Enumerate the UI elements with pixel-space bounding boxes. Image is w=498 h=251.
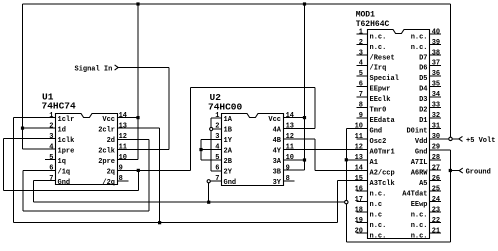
svg-text:8: 8 [119, 175, 123, 183]
arrow Ground [459, 168, 463, 173]
svg-text:8: 8 [286, 175, 290, 183]
svg-text:D5: D5 [419, 75, 427, 83]
svg-text:D4: D4 [419, 86, 427, 94]
svg-text:11: 11 [119, 143, 127, 151]
wire U1 pin 8 /2q stub [117, 180, 128, 182]
wire A3Tclk drop [336, 181, 338, 223]
svg-text:4A: 4A [273, 127, 282, 135]
junction 2q feedback [137, 169, 140, 172]
svg-text:17: 17 [355, 196, 363, 204]
svg-text:/2q: /2q [102, 179, 115, 187]
svg-text:A1: A1 [370, 159, 378, 167]
wire U2 pin 13 4A [283, 128, 315, 130]
svg-text:/Irq: /Irq [370, 65, 387, 73]
svg-text:28: 28 [432, 154, 440, 162]
svg-text:A5: A5 [419, 180, 427, 188]
svg-text:/Reset: /Reset [370, 54, 395, 62]
wire U1 pin 7 Gnd [34, 180, 56, 182]
svg-text:3: 3 [359, 49, 363, 57]
svg-text:A7IL: A7IL [411, 159, 428, 167]
node U2 1B junction ring [210, 127, 213, 130]
svg-text:Gnd: Gnd [58, 179, 71, 187]
MOD1 pin 37 stub [430, 64, 441, 66]
node circuit ground ring [345, 200, 348, 203]
wire 1clk feedback rail [4, 190, 139, 192]
MOD1 pin 21 stub [430, 232, 441, 234]
IC U2 74HC00 body (quad NAND) [222, 114, 284, 186]
MOD1 pin 20 stub [357, 232, 368, 234]
svg-text:2: 2 [49, 122, 53, 130]
svg-text:A6RW: A6RW [411, 170, 429, 178]
wire module ground right column [449, 150, 451, 242]
svg-text:33: 33 [432, 102, 440, 110]
svg-text:A3Tclk: A3Tclk [370, 180, 395, 188]
IC U1 74HC74 body (dual D flip-flop) [56, 114, 118, 185]
wire Signal In vertical drop [168, 68, 170, 150]
svg-text:36: 36 [432, 70, 440, 78]
svg-text:A4Tdat: A4Tdat [402, 191, 427, 199]
svg-text:n.c.: n.c. [370, 44, 387, 52]
wire U2 pin 12 4B [283, 138, 315, 140]
junction clear rail / 2clr [158, 221, 161, 224]
junction U1 Vcc pin 14 [136, 116, 139, 119]
junction 1Y to 2A [199, 148, 202, 151]
svg-text:Vdd: Vdd [415, 138, 428, 146]
svg-text:3: 3 [49, 133, 53, 141]
MOD1 pin 31 stub [430, 127, 441, 129]
wire U1 pin 4 1pre [23, 148, 56, 150]
MOD1 pin 11 stub [357, 138, 368, 140]
wire ground bottom run [346, 241, 450, 243]
IC module MOD1 T62H64C body [368, 30, 430, 239]
svg-text:14: 14 [119, 112, 127, 120]
svg-text:12: 12 [355, 144, 363, 152]
wire U2 pin 10 3A [283, 159, 305, 161]
wire Signal In horizontal [118, 67, 169, 69]
svg-text:11: 11 [286, 143, 294, 151]
svg-text:4: 4 [359, 60, 363, 68]
MOD1 pin 27 stub [430, 169, 441, 171]
svg-text:23: 23 [432, 206, 440, 214]
svg-text:2pre: 2pre [98, 158, 115, 166]
svg-text:n.c.: n.c. [370, 33, 387, 41]
wire MOD1 pin 15 A3Tclk [337, 180, 367, 182]
svg-text:18: 18 [355, 206, 363, 214]
svg-text:D0int: D0int [406, 128, 427, 136]
MOD1 pin 34 stub [430, 96, 441, 98]
MOD1 pin 35 stub [430, 85, 441, 87]
node +5 Volt terminal ring [449, 137, 452, 140]
svg-text:9: 9 [359, 112, 363, 120]
svg-text:Osc2: Osc2 [370, 138, 387, 146]
svg-text:35: 35 [432, 81, 440, 89]
wire MOD1 pin 29 Gnd [430, 149, 451, 151]
wire +5V label lead [452, 138, 459, 140]
MOD1 pin 22 stub [430, 222, 441, 224]
MOD1 pin 25 stub [430, 190, 441, 192]
MOD1 pin 39 stub [430, 43, 441, 45]
svg-text:5: 5 [359, 70, 363, 78]
svg-text:9: 9 [119, 165, 123, 173]
svg-text:16: 16 [355, 186, 363, 194]
svg-text:4: 4 [49, 143, 53, 151]
junction U2 Vcc pin 14 [303, 116, 306, 119]
svg-text:n.c.: n.c. [411, 222, 428, 230]
svg-text:n.c.: n.c. [370, 222, 387, 230]
svg-text:3B: 3B [273, 169, 282, 177]
wire U2 pin 3 1Y [201, 139, 222, 141]
svg-text:9: 9 [286, 165, 290, 173]
svg-text:27: 27 [432, 165, 440, 173]
wire +5V left leg down to U1 1d/1pre [22, 4, 24, 149]
svg-text:Vcc: Vcc [102, 116, 115, 124]
MOD1 pin 28 stub [430, 159, 441, 161]
wire 2q riser to U2 [190, 87, 192, 170]
wire U1 pin 3 1clk [4, 138, 56, 140]
wire 1clr loop vertical [13, 118, 15, 223]
svg-text:Special: Special [370, 75, 399, 83]
svg-text:1q: 1q [58, 158, 66, 166]
wire U2 pin 8 3Y stub [283, 180, 295, 182]
svg-text:38: 38 [432, 49, 440, 57]
svg-text:7: 7 [49, 175, 53, 183]
svg-text:10: 10 [355, 123, 363, 131]
wire U2 pin 1 1A [211, 117, 221, 119]
MOD1 pin 32 stub [430, 117, 441, 119]
wire MOD1 pin 10 Gnd [346, 127, 367, 129]
svg-text:D3: D3 [419, 96, 427, 104]
svg-text:2A: 2A [224, 148, 233, 156]
svg-text:30: 30 [432, 133, 440, 141]
MOD1 pin 23 stub [430, 211, 441, 213]
arrow +5 Volt [459, 136, 463, 141]
wire ground column lower [345, 204, 347, 242]
svg-text:24: 24 [432, 196, 440, 204]
MOD1 pin 40 stub [430, 33, 441, 35]
wire U2 pin 11 4Y to MOD1 pin 12 A0Tmr1 [283, 148, 368, 150]
svg-text:34: 34 [432, 91, 440, 99]
wire 2Y to 1A/1B vertical [210, 118, 212, 171]
svg-text:Tmr0: Tmr0 [370, 107, 387, 115]
wire 2clr vertical [159, 128, 161, 223]
svg-text:10: 10 [119, 154, 127, 162]
svg-text:EEwp: EEwp [411, 201, 428, 209]
MOD1 pin 4 stub [357, 64, 368, 66]
MOD1 pin 18 stub [357, 211, 368, 213]
svg-text:Gnd: Gnd [415, 149, 428, 157]
svg-text:1B: 1B [224, 127, 233, 135]
wire 1Y to 2A/2B vertical [200, 140, 202, 161]
svg-text:4Y: 4Y [273, 148, 282, 156]
svg-text:n.c.: n.c. [370, 232, 387, 240]
wire 4A drop [314, 87, 316, 128]
svg-text:7: 7 [215, 175, 219, 183]
wire MOD1 pin 13 A1 [346, 159, 367, 161]
svg-text:1clr: 1clr [58, 116, 75, 124]
MOD1 pin 26 stub [430, 180, 441, 182]
svg-text:40: 40 [432, 28, 440, 36]
wire U1 Gnd loop vertical [33, 181, 35, 202]
svg-text:EEdata: EEdata [370, 117, 396, 125]
MOD1 pin 6 stub [357, 85, 368, 87]
svg-text:7: 7 [359, 91, 363, 99]
wire U2 pin 4 2A [201, 149, 222, 151]
svg-text:22: 22 [432, 217, 440, 225]
svg-text:4B: 4B [273, 137, 282, 145]
svg-text:EEclk: EEclk [370, 96, 391, 104]
svg-text:3A: 3A [273, 158, 282, 166]
svg-text:n.c.: n.c. [411, 33, 428, 41]
junction top bus right-mid leg [303, 2, 306, 5]
svg-text:1A: 1A [224, 116, 233, 124]
svg-text:2d: 2d [107, 137, 115, 145]
wire 2d vertical [148, 139, 150, 210]
wire /1q to 2d rail [23, 210, 149, 212]
svg-text:A0Tmr1: A0Tmr1 [370, 149, 395, 157]
svg-text:1: 1 [49, 112, 53, 120]
junction +5V bus to U1 1d [21, 127, 24, 130]
wire clear rail bottom [14, 222, 338, 224]
svg-text:+5 Volt: +5 Volt [466, 137, 495, 145]
arrow Signal In [115, 65, 119, 70]
svg-text:13: 13 [286, 122, 294, 130]
svg-text:74HC74: 74HC74 [42, 101, 77, 112]
node U2 Gnd pin 7 ring [207, 180, 210, 183]
svg-text:MOD1: MOD1 [356, 11, 375, 20]
svg-text:EEpwr: EEpwr [370, 86, 391, 94]
MOD1 pin 5 stub [357, 75, 368, 77]
svg-text:20: 20 [355, 227, 363, 235]
MOD1 pin 1 stub [357, 33, 368, 35]
wire +5V far right leg [450, 4, 452, 137]
svg-text:25: 25 [432, 186, 440, 194]
svg-text:13: 13 [119, 122, 127, 130]
svg-text:1clk: 1clk [58, 137, 75, 145]
svg-text:n.c.: n.c. [411, 232, 428, 240]
svg-text:1: 1 [359, 28, 363, 36]
wire U2 Gnd drop [208, 183, 210, 202]
svg-text:29: 29 [432, 144, 440, 152]
svg-text:A2/ccp: A2/ccp [370, 170, 395, 178]
svg-text:n.c: n.c [370, 201, 383, 209]
wire U1 pin 11 2clk [117, 148, 169, 150]
svg-text:Ground: Ground [466, 169, 491, 177]
wire A2/ccp to MOD1 pin 14 [315, 169, 367, 171]
wire 2q top horizontal to U2 4A [191, 86, 316, 88]
svg-text:2Y: 2Y [224, 169, 233, 177]
wire 4B drop to A2/ccp [314, 139, 316, 170]
MOD1 pin 17 stub [357, 201, 368, 203]
svg-text:4: 4 [215, 143, 219, 151]
svg-text:D7: D7 [419, 54, 427, 62]
svg-text:3Y: 3Y [273, 179, 282, 187]
MOD1 pin 33 stub [430, 106, 441, 108]
wire U2 pin 6 2Y [211, 170, 221, 172]
wire U1 pin 6 /1q [23, 170, 56, 172]
junction Ground label tap [449, 169, 452, 172]
svg-text:1d: 1d [58, 127, 66, 135]
MOD1 pin 3 stub [357, 54, 368, 56]
svg-text:39: 39 [432, 39, 440, 47]
svg-text:8: 8 [359, 102, 363, 110]
wire U2 pin 7 Gnd [210, 180, 221, 182]
svg-text:2q: 2q [107, 169, 115, 177]
svg-text:/1q: /1q [58, 169, 71, 177]
wire U2 pin 5 2B [201, 159, 222, 161]
svg-text:10: 10 [286, 154, 294, 162]
svg-text:n.c.: n.c. [370, 191, 387, 199]
svg-text:1Y: 1Y [224, 137, 233, 145]
svg-text:14: 14 [355, 165, 363, 173]
svg-text:2B: 2B [224, 158, 233, 166]
svg-text:n.c.: n.c. [411, 44, 428, 52]
MOD1 pin 8 stub [357, 106, 368, 108]
svg-text:5: 5 [49, 154, 53, 162]
svg-text:1pre: 1pre [58, 148, 75, 156]
wire U1 pin 5 1q stub [45, 159, 56, 161]
svg-text:6: 6 [49, 165, 53, 173]
svg-text:14: 14 [286, 112, 294, 120]
svg-text:26: 26 [432, 175, 440, 183]
wire U1 pin 1 1clr [14, 117, 56, 119]
MOD1 pin 36 stub [430, 75, 441, 77]
svg-text:32: 32 [432, 112, 440, 120]
svg-text:D1: D1 [419, 117, 427, 125]
MOD1 pin 16 stub [357, 190, 368, 192]
svg-text:2clr: 2clr [98, 127, 115, 135]
svg-text:Vcc: Vcc [268, 116, 281, 124]
MOD1 pin 9 stub [357, 117, 368, 119]
wire U1 pin 10 2pre [117, 159, 138, 161]
junction MOD1 A1 to ground column [345, 158, 348, 161]
wire U2 pin 2 1B [213, 128, 222, 130]
MOD1 pin 38 stub [430, 54, 441, 56]
MOD1 pin 19 stub [357, 222, 368, 224]
svg-text:D6: D6 [419, 65, 427, 73]
junction top bus mid leg [136, 2, 139, 5]
svg-text:Signal In: Signal In [75, 66, 113, 74]
wire U1 pin 2 1d [23, 127, 56, 129]
wire +5V right-mid leg down to U2 (x=304.5) [304, 4, 306, 170]
svg-text:74HC00: 74HC00 [208, 102, 243, 113]
MOD1 pin 7 stub [357, 96, 368, 98]
svg-text:2clk: 2clk [98, 148, 115, 156]
wire /1q loop vertical [22, 171, 24, 211]
svg-text:11: 11 [355, 133, 363, 141]
wire 1clk loop vertical [3, 139, 5, 191]
svg-text:37: 37 [432, 60, 440, 68]
svg-text:2: 2 [359, 39, 363, 47]
svg-text:15: 15 [355, 175, 363, 183]
svg-text:Gnd: Gnd [224, 179, 237, 187]
svg-text:Gnd: Gnd [370, 128, 383, 136]
wire U1 pin 13 2clr [117, 127, 160, 129]
svg-text:19: 19 [355, 217, 363, 225]
wire U1 pin 14 Vcc [117, 117, 138, 119]
wire MOD1 Gnd column [345, 128, 347, 200]
svg-text:n.c.: n.c. [411, 211, 428, 219]
wire U2 pin 14 Vcc [283, 117, 305, 119]
MOD1 pin 24 stub [430, 201, 441, 203]
svg-text:13: 13 [355, 154, 363, 162]
wire MOD1 pin 30 Vdd [430, 138, 449, 140]
wire U2 pin 9 3B [283, 169, 305, 171]
svg-text:5: 5 [215, 154, 219, 162]
svg-text:6: 6 [359, 81, 363, 89]
wire U1 pin 12 2d [117, 138, 149, 140]
junction U2 Gnd to ground rail [207, 201, 210, 204]
svg-text:1: 1 [215, 112, 219, 120]
svg-text:21: 21 [432, 227, 440, 235]
svg-text:D2: D2 [419, 107, 427, 115]
svg-text:n.c: n.c [370, 211, 383, 219]
junction U2 pin 10 3A tie [303, 158, 306, 161]
svg-text:31: 31 [432, 123, 440, 131]
wire U1 pin 9 2q [117, 169, 191, 171]
wire ground rail [34, 201, 345, 203]
wire +5V top bus [23, 3, 451, 5]
wire +5V mid leg down (x=138) [137, 4, 139, 160]
wire Ground label lead [450, 170, 459, 172]
MOD1 pin 2 stub [357, 43, 368, 45]
wire 2q feedback drop [137, 170, 139, 190]
